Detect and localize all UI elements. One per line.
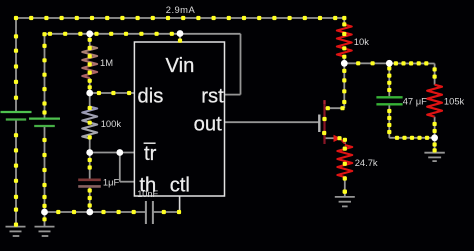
svg-text:1M: 1M [100,57,113,68]
svg-text:ctl: ctl [170,174,190,196]
svg-text:2.9mA: 2.9mA [166,4,196,15]
svg-text:47 μF: 47 μF [403,96,427,107]
svg-text:Vin: Vin [166,55,195,77]
svg-text:10k: 10k [354,36,369,47]
svg-text:100k: 100k [101,118,122,129]
svg-text:rst: rst [201,85,224,107]
svg-text:24.7k: 24.7k [355,157,378,168]
svg-text:105k: 105k [444,95,465,106]
svg-text:dis: dis [138,85,164,107]
svg-text:th: th [139,174,156,196]
svg-text:tr: tr [144,143,157,165]
svg-text:1μF: 1μF [103,176,120,187]
svg-text:out: out [194,113,222,135]
